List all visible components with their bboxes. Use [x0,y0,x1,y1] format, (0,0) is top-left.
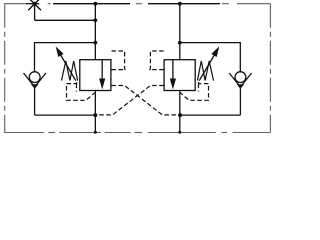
counterbalance valve CB2 spring [197,61,213,81]
check valve CV1 circle [29,72,40,83]
counterbalance valve CB1 flow arrow [101,60,103,80]
node dot top border left valve [93,2,97,6]
check valve CV2 circle [235,72,246,83]
wire top flow line through node at x=95 [53,3,130,5]
wire left branch horizontal y=42.6 [35,42,96,44]
wire check valve CV2 outlet [239,88,241,116]
node dot bottom right [178,113,182,117]
spring drain box CB2 left edge (dashed) [198,84,200,92]
node dot top border right valve [178,2,182,6]
wire CB1 outlet to bottom [94,91,96,134]
wire top flow line through node at x=180 [148,3,220,5]
node blob left port at bottom border [94,131,97,134]
wire top flow line V1 segment [26,3,39,5]
plugged port X symbol [28,0,41,10]
wire right branch down to check valve [239,42,241,72]
enclosure border top edge (dashed parts) [4,3,270,5]
wire left branch down to check valve [34,42,36,72]
wire right branch horizontal y=42.6 [180,42,241,44]
wire bottom left horizontal [35,114,96,116]
counterbalance valve CB1 spring [62,61,78,81]
wire check valve CV1 outlet [34,88,36,116]
spring drain box CB1 (dashed) [67,82,95,100]
check valve CV2 flow arrowhead [237,84,244,89]
node dot bottom left [93,113,97,117]
check valve CV1 flow arrowhead [31,84,38,89]
node dot left branch [93,41,97,45]
pilot line CB1 crossover (dashed) [112,86,179,115]
counterbalance valve CB1 adjustment arrow [60,54,76,81]
wire CB2 outlet to bottom [179,91,181,134]
enclosure border bottom edge [4,132,270,134]
check valve CV2 seat [229,73,251,87]
wire bottom right horizontal [180,114,240,116]
node dot at plugged port [33,2,37,6]
counterbalance valve CB1 body [80,60,111,91]
node blob right port at bottom border [178,131,181,134]
spring drain box CB1 right edge (dashed) [76,84,78,92]
counterbalance valve CB2 flow arrow [172,60,174,80]
wire from plugged port to left valve line [35,19,96,21]
pilot box CB1 (dashed) [112,51,127,70]
enclosure border left edge [4,4,6,133]
wire from plugged port down [34,4,36,21]
wire right valve vertical line [179,4,181,60]
node dot on left valve line at y=20.3 [93,18,97,22]
wire left valve vertical line [94,4,96,60]
pilot box CB2 (dashed) [149,51,164,70]
pilot line CB2 crossover (dashed) [97,86,163,115]
node dot right branch [178,41,182,45]
counterbalance valve CB2 body [164,60,195,91]
spring drain box CB2 (dashed) [180,82,208,100]
check valve CV1 seat [24,73,46,87]
counterbalance valve CB2 adjustment arrow [199,54,215,81]
enclosure border right edge [269,4,271,133]
